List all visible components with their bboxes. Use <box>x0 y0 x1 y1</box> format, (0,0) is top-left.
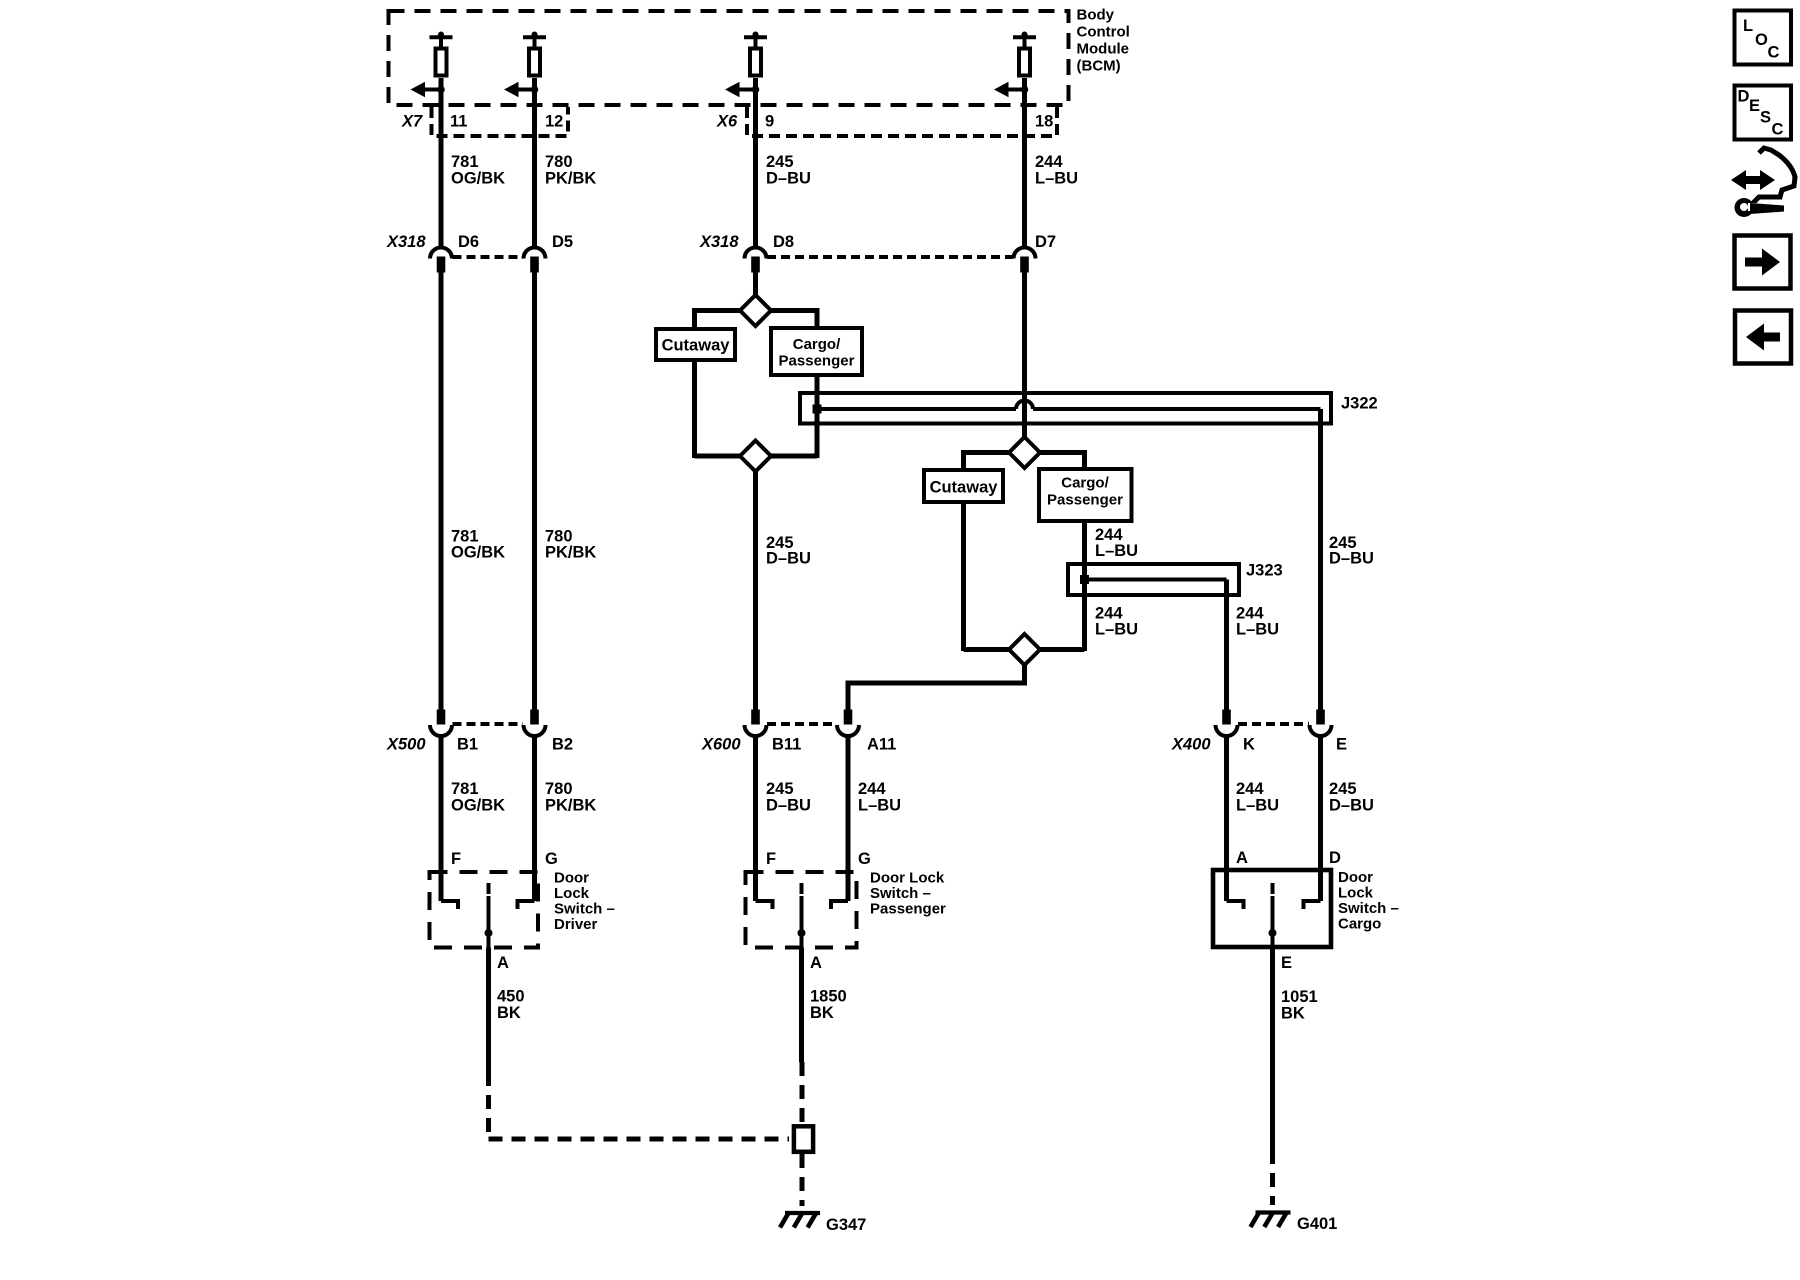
svg-text:L–BU: L–BU <box>858 797 901 815</box>
svg-text:Module: Module <box>1077 41 1130 58</box>
svg-text:C: C <box>1772 121 1784 139</box>
svg-text:Cargo/: Cargo/ <box>1061 475 1109 492</box>
svg-text:B11: B11 <box>772 736 801 754</box>
svg-text:Passenger: Passenger <box>1047 492 1123 509</box>
svg-text:9: 9 <box>765 113 774 131</box>
svg-text:780: 780 <box>545 153 573 171</box>
svg-text:1850: 1850 <box>810 988 847 1006</box>
svg-text:D–BU: D–BU <box>766 797 811 815</box>
svg-text:1051: 1051 <box>1281 988 1318 1006</box>
svg-text:244: 244 <box>1035 153 1063 171</box>
svg-text:X7: X7 <box>401 113 423 131</box>
svg-text:781: 781 <box>451 153 479 171</box>
svg-text:C: C <box>1768 44 1780 62</box>
svg-text:Body: Body <box>1077 7 1115 24</box>
svg-text:D8: D8 <box>773 233 794 251</box>
svg-text:Door: Door <box>554 870 589 887</box>
svg-text:PK/BK: PK/BK <box>545 797 596 815</box>
svg-text:L–BU: L–BU <box>1236 797 1279 815</box>
svg-text:245: 245 <box>1329 780 1357 798</box>
svg-text:G: G <box>545 850 558 868</box>
svg-text:E: E <box>1281 954 1292 972</box>
svg-text:Lock: Lock <box>554 885 590 902</box>
svg-text:L–BU: L–BU <box>1035 170 1078 188</box>
svg-text:244: 244 <box>858 780 886 798</box>
svg-text:Cutaway: Cutaway <box>930 479 999 497</box>
svg-text:245: 245 <box>766 780 794 798</box>
svg-text:Lock: Lock <box>1338 885 1374 902</box>
svg-text:(BCM): (BCM) <box>1077 58 1121 75</box>
svg-text:D6: D6 <box>458 233 479 251</box>
svg-text:G401: G401 <box>1297 1215 1337 1233</box>
svg-text:A: A <box>810 954 822 972</box>
svg-text:J323: J323 <box>1246 562 1283 580</box>
svg-text:D5: D5 <box>552 233 573 251</box>
svg-text:D7: D7 <box>1035 233 1056 251</box>
svg-text:A: A <box>497 954 509 972</box>
svg-text:Switch –: Switch – <box>870 885 931 902</box>
svg-text:X6: X6 <box>716 113 738 131</box>
svg-text:L: L <box>1743 17 1753 35</box>
svg-text:12: 12 <box>545 113 563 131</box>
svg-text:B1: B1 <box>457 736 478 754</box>
svg-text:OG/BK: OG/BK <box>451 544 505 562</box>
svg-text:OG/BK: OG/BK <box>451 797 505 815</box>
svg-text:S: S <box>1760 109 1771 127</box>
svg-text:D: D <box>1329 849 1341 867</box>
svg-text:K: K <box>1243 736 1255 754</box>
svg-text:PK/BK: PK/BK <box>545 170 596 188</box>
svg-text:X400: X400 <box>1171 736 1211 754</box>
svg-text:BK: BK <box>1281 1005 1305 1023</box>
svg-text:Cargo/: Cargo/ <box>793 336 841 353</box>
svg-text:X318: X318 <box>699 233 739 251</box>
svg-text:X500: X500 <box>386 736 426 754</box>
svg-text:D: D <box>1738 88 1750 106</box>
svg-text:D–BU: D–BU <box>766 550 811 568</box>
svg-text:D–BU: D–BU <box>766 170 811 188</box>
svg-text:X318: X318 <box>386 233 426 251</box>
svg-text:D–BU: D–BU <box>1329 550 1374 568</box>
svg-text:F: F <box>766 850 776 868</box>
svg-text:244: 244 <box>1236 780 1264 798</box>
svg-text:A: A <box>1236 849 1248 867</box>
svg-text:Switch –: Switch – <box>554 901 615 918</box>
svg-text:781: 781 <box>451 780 479 798</box>
svg-text:18: 18 <box>1035 113 1053 131</box>
svg-text:245: 245 <box>766 153 794 171</box>
svg-text:PK/BK: PK/BK <box>545 544 596 562</box>
svg-text:F: F <box>451 850 461 868</box>
svg-text:L–BU: L–BU <box>1095 542 1138 560</box>
svg-text:G: G <box>858 850 871 868</box>
svg-text:O: O <box>1755 31 1768 49</box>
svg-text:Cutaway: Cutaway <box>662 337 731 355</box>
svg-text:L–BU: L–BU <box>1095 621 1138 639</box>
svg-text:BK: BK <box>497 1004 521 1022</box>
svg-text:780: 780 <box>545 780 573 798</box>
svg-text:L–BU: L–BU <box>1236 621 1279 639</box>
svg-text:A11: A11 <box>867 736 896 754</box>
svg-text:G347: G347 <box>826 1216 866 1234</box>
svg-text:E: E <box>1749 97 1760 115</box>
svg-text:X600: X600 <box>701 736 741 754</box>
svg-text:Door Lock: Door Lock <box>870 870 945 887</box>
svg-text:Switch –: Switch – <box>1338 900 1399 917</box>
svg-text:Cargo: Cargo <box>1338 916 1381 933</box>
svg-text:J322: J322 <box>1341 395 1378 413</box>
svg-text:BK: BK <box>810 1004 834 1022</box>
svg-text:Control: Control <box>1077 24 1130 41</box>
svg-text:E: E <box>1336 736 1347 754</box>
svg-text:11: 11 <box>450 113 467 131</box>
svg-text:Passenger: Passenger <box>870 901 946 918</box>
svg-text:Door: Door <box>1338 869 1373 886</box>
svg-text:D–BU: D–BU <box>1329 797 1374 815</box>
svg-text:Driver: Driver <box>554 916 598 933</box>
svg-text:OG/BK: OG/BK <box>451 170 505 188</box>
svg-text:B2: B2 <box>552 736 573 754</box>
svg-text:Passenger: Passenger <box>779 353 855 370</box>
svg-text:450: 450 <box>497 988 525 1006</box>
